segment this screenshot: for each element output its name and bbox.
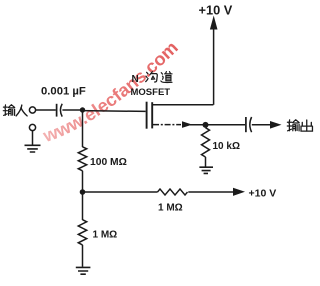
wire C1 to node A: [62, 109, 82, 111]
wire drain to +10V corner: [153, 104, 213, 106]
label 输出 (output): [287, 120, 312, 131]
input terminal circle: [29, 107, 35, 113]
capacitor C1 plates: [56, 104, 58, 117]
transistor Q1 channel bar: [151, 102, 153, 128]
svg-text:1 MΩ: 1 MΩ: [93, 230, 118, 241]
node C junction dot: [80, 189, 86, 195]
wire source: [153, 124, 181, 126]
wire C2 to output arrow: [252, 124, 270, 126]
output arrow: [270, 121, 282, 129]
wire node C to R3: [83, 191, 158, 193]
svg-text:+10 V: +10 V: [199, 2, 233, 17]
svg-text:N: N: [132, 74, 139, 85]
svg-text:1 MΩ: 1 MΩ: [158, 203, 183, 214]
resistor R2 1 MΩ vertical: [78, 220, 86, 245]
+10V supply arrow (top): [210, 16, 218, 30]
wire up to +10V: [213, 27, 215, 105]
svg-text:+10 V: +10 V: [249, 188, 277, 200]
ground (input): [25, 145, 41, 152]
label N 沟道: [132, 72, 172, 85]
svg-text:MOSFET: MOSFET: [131, 87, 171, 98]
wire terminal to ground: [32, 131, 34, 145]
node A junction dot: [80, 107, 85, 112]
wire R4 to ground: [205, 157, 207, 167]
wire input to C1: [36, 109, 56, 111]
ground (R2): [76, 267, 91, 274]
wire R3 to +10V arrow: [188, 191, 233, 193]
node B junction dot: [203, 122, 209, 128]
ground terminal circle below input: [29, 124, 35, 130]
transistor Q1 gate bar: [146, 102, 148, 129]
resistor R3 1 MΩ horizontal: [158, 189, 188, 195]
+10V arrow (right): [233, 188, 245, 196]
wire source arrow to node B to C2: [190, 124, 245, 126]
wire node C down to R2: [82, 192, 84, 220]
resistor R1 100 MΩ: [78, 147, 86, 171]
resistor R4 10 kΩ: [202, 128, 210, 157]
source arrow: [182, 121, 192, 128]
watermark www.elecfans.com: [40, 37, 182, 146]
ground (R4): [199, 167, 213, 173]
wire node A down to R1: [82, 110, 84, 147]
capacitor C2 plates: [245, 117, 247, 132]
wire R2 to ground: [82, 245, 84, 267]
wire R1 to node C: [82, 171, 84, 192]
wire node A to gate: [83, 110, 146, 113]
svg-text:0.001 µF: 0.001 µF: [41, 86, 86, 98]
label 输入 (input): [3, 105, 27, 116]
svg-text:100 MΩ: 100 MΩ: [90, 157, 127, 168]
svg-text:10 kΩ: 10 kΩ: [213, 141, 240, 152]
